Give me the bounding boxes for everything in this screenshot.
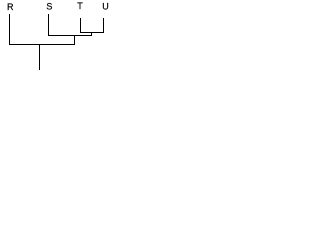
wire: R-(STU) join horizontal	[9, 44, 75, 46]
wire: root stem	[39, 44, 41, 70]
wire: leaf U vertical	[103, 18, 105, 33]
wire: leaf R vertical	[9, 14, 11, 45]
wire: leaf S vertical	[48, 14, 50, 36]
svg-text:T: T	[77, 1, 83, 11]
wire: T-U join horizontal	[80, 32, 104, 34]
background	[0, 0, 117, 74]
svg-text:R: R	[7, 2, 14, 12]
wire: T-U cluster stem	[91, 32, 93, 36]
wire: S-TU cluster stem	[74, 35, 76, 45]
wire: leaf T vertical	[80, 18, 82, 33]
svg-text:S: S	[46, 2, 52, 12]
wire: S-(TU) join horizontal	[48, 35, 92, 37]
svg-text:U: U	[102, 1, 109, 11]
